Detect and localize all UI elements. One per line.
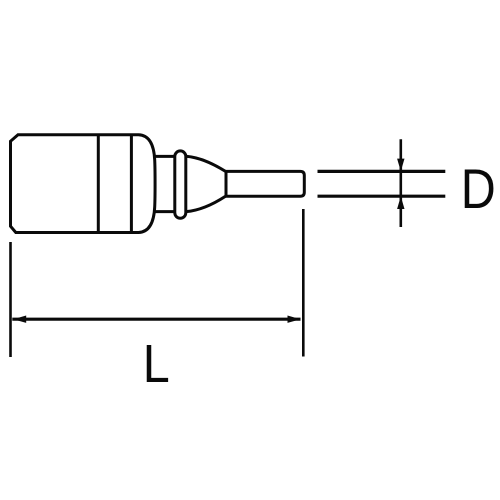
- svg-text:L: L: [143, 334, 170, 394]
- body outline: [11, 135, 156, 233]
- D arrowhead down: [397, 159, 404, 172]
- neck bottom line: [154, 210, 175, 213]
- bell bottom curve: [186, 196, 226, 211]
- D arrowhead up: [397, 196, 404, 209]
- body groove line 1: [97, 135, 100, 233]
- neck top line: [154, 155, 175, 158]
- L arrowhead right: [288, 316, 301, 323]
- svg-text:D: D: [461, 157, 496, 220]
- L arrowhead left: [13, 316, 26, 323]
- ring capsule: [175, 151, 186, 218]
- L extension line right: [302, 209, 305, 357]
- L extension line left: [9, 242, 12, 357]
- D arrow vertical line: [399, 139, 402, 227]
- L dimension line: [12, 318, 300, 321]
- bell top curve: [186, 156, 226, 171]
- body groove line 2: [130, 135, 133, 233]
- rod outline: [226, 171, 304, 196]
- D extension line bottom: [318, 195, 446, 198]
- D extension line top: [318, 170, 446, 173]
